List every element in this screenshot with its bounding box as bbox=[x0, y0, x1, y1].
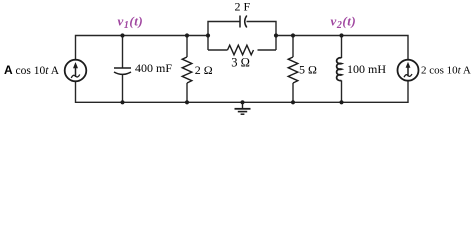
node inductor bottom junction bbox=[339, 100, 343, 104]
node box left bbox=[206, 33, 210, 37]
resistor 3 ohm (box bottom branch) bbox=[228, 45, 254, 55]
wire box left edge bbox=[208, 22, 240, 51]
wire 2-ohm branch bottom bbox=[186, 83, 188, 102]
node dots top rail bbox=[120, 33, 343, 104]
wire top-left (v1 rail) bbox=[76, 36, 209, 60]
wire capacitor branch top bbox=[122, 36, 124, 69]
node inductor top junction bbox=[339, 33, 343, 37]
capacitor 400 mF bbox=[114, 68, 131, 74]
resistor 5 ohm bbox=[288, 57, 298, 83]
svg-text:400 mF: 400 mF bbox=[135, 61, 172, 75]
wire 5-ohm branch top bbox=[292, 36, 294, 58]
current source I2 bbox=[398, 60, 419, 81]
current source I1 bbox=[65, 60, 87, 82]
svg-text:5 Ω: 5 Ω bbox=[299, 62, 317, 76]
wire inductor branch bottom bbox=[341, 80, 343, 102]
svg-text:3 Ω: 3 Ω bbox=[231, 56, 250, 70]
resistor 2 ohm bbox=[182, 57, 192, 83]
node v1 junction (cap branch) bbox=[120, 33, 124, 37]
node box right bbox=[274, 33, 278, 37]
svg-text:100 mH: 100 mH bbox=[347, 62, 386, 76]
node 2-ohm top junction bbox=[185, 33, 189, 37]
inductor 100 mH bbox=[337, 58, 342, 81]
wire capacitor branch bottom bbox=[122, 75, 124, 103]
wire 5-ohm branch bottom bbox=[292, 83, 294, 102]
node ground junction bbox=[240, 100, 244, 104]
wire inductor branch top bbox=[341, 36, 343, 59]
wire 2-ohm branch top bbox=[186, 36, 188, 58]
wire box bottom-left segment bbox=[208, 49, 228, 51]
ground bbox=[235, 102, 251, 114]
capacitor 2 F (top branch) bbox=[240, 16, 247, 28]
svg-text:2 Ω: 2 Ω bbox=[195, 63, 213, 77]
node 2-ohm bottom junction bbox=[185, 100, 189, 104]
wire box right edge bbox=[247, 22, 277, 51]
node 5-ohm top junction bbox=[291, 33, 295, 37]
svg-text:A cos 10t A: A cos 10t A bbox=[4, 63, 60, 77]
svg-text:2 cos 10t A: 2 cos 10t A bbox=[421, 64, 471, 76]
wire top-right (v2 rail) bbox=[276, 36, 408, 60]
svg-text:v1(t): v1(t) bbox=[118, 13, 144, 31]
node cap bottom junction bbox=[120, 100, 124, 104]
wire box bottom-right segment bbox=[258, 49, 277, 51]
svg-text:2 F: 2 F bbox=[235, 0, 251, 14]
node 5-ohm bottom junction bbox=[291, 100, 295, 104]
wire bottom bbox=[76, 81, 409, 103]
svg-text:v2(t): v2(t) bbox=[331, 13, 357, 31]
